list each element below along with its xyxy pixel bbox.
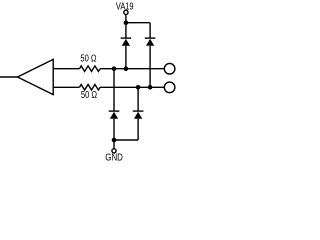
diode D2 (bottom line to VA19) [145,37,156,45]
wire VA19 to D2 cathode [149,23,151,38]
terminal output top circle [164,63,175,74]
node junction GND rail [112,138,117,143]
node junction top line / D1 [124,66,129,71]
op-amp U1 (output buffer triangle) [18,59,54,94]
wire D2 anode to bottom line (crosses top line) [149,46,151,88]
diode D1 (top line to VA19) [121,37,132,45]
wire top output to resistor [53,68,79,70]
terminal GND pin circle [112,149,116,153]
terminal VA19 pin circle [124,10,128,14]
svg-text:50 Ω: 50 Ω [81,90,98,101]
wire bottom line to output terminal [100,86,164,88]
wire top line to D3 cathode [113,69,115,111]
node junction bottom line / D2 [148,85,153,90]
wire GND rail horizontal [114,139,138,141]
node junction top line / D3 [112,66,117,71]
resistor R2 50 ohm (bottom) [80,85,101,91]
wire D3 anode to GND rail [113,119,115,140]
diode D4 (GND to bottom line) [133,110,144,118]
wire VA19 down to junction [125,15,127,23]
wire bottom line to D4 cathode [137,87,139,111]
svg-text:VA19: VA19 [116,1,134,12]
svg-text:GND: GND [105,153,123,163]
wire GND junction to terminal [113,140,115,149]
wire D4 anode to GND rail [137,119,139,140]
wire input [0,76,18,78]
wire VA19 to D1 cathode [125,23,127,38]
node junction VA19 rail [124,20,129,25]
svg-text:50 Ω: 50 Ω [80,54,97,65]
resistor R1 50 ohm (top) [80,66,101,72]
wire D1 anode to top line [125,46,127,69]
diode D3 (GND to top line) [109,110,120,118]
wire top line to output terminal [100,68,164,70]
wire VA19 rail horizontal [126,22,150,24]
terminal output bottom circle [164,82,175,93]
wire bottom output to resistor [53,86,79,88]
node junction bottom line / D4 [136,85,141,90]
